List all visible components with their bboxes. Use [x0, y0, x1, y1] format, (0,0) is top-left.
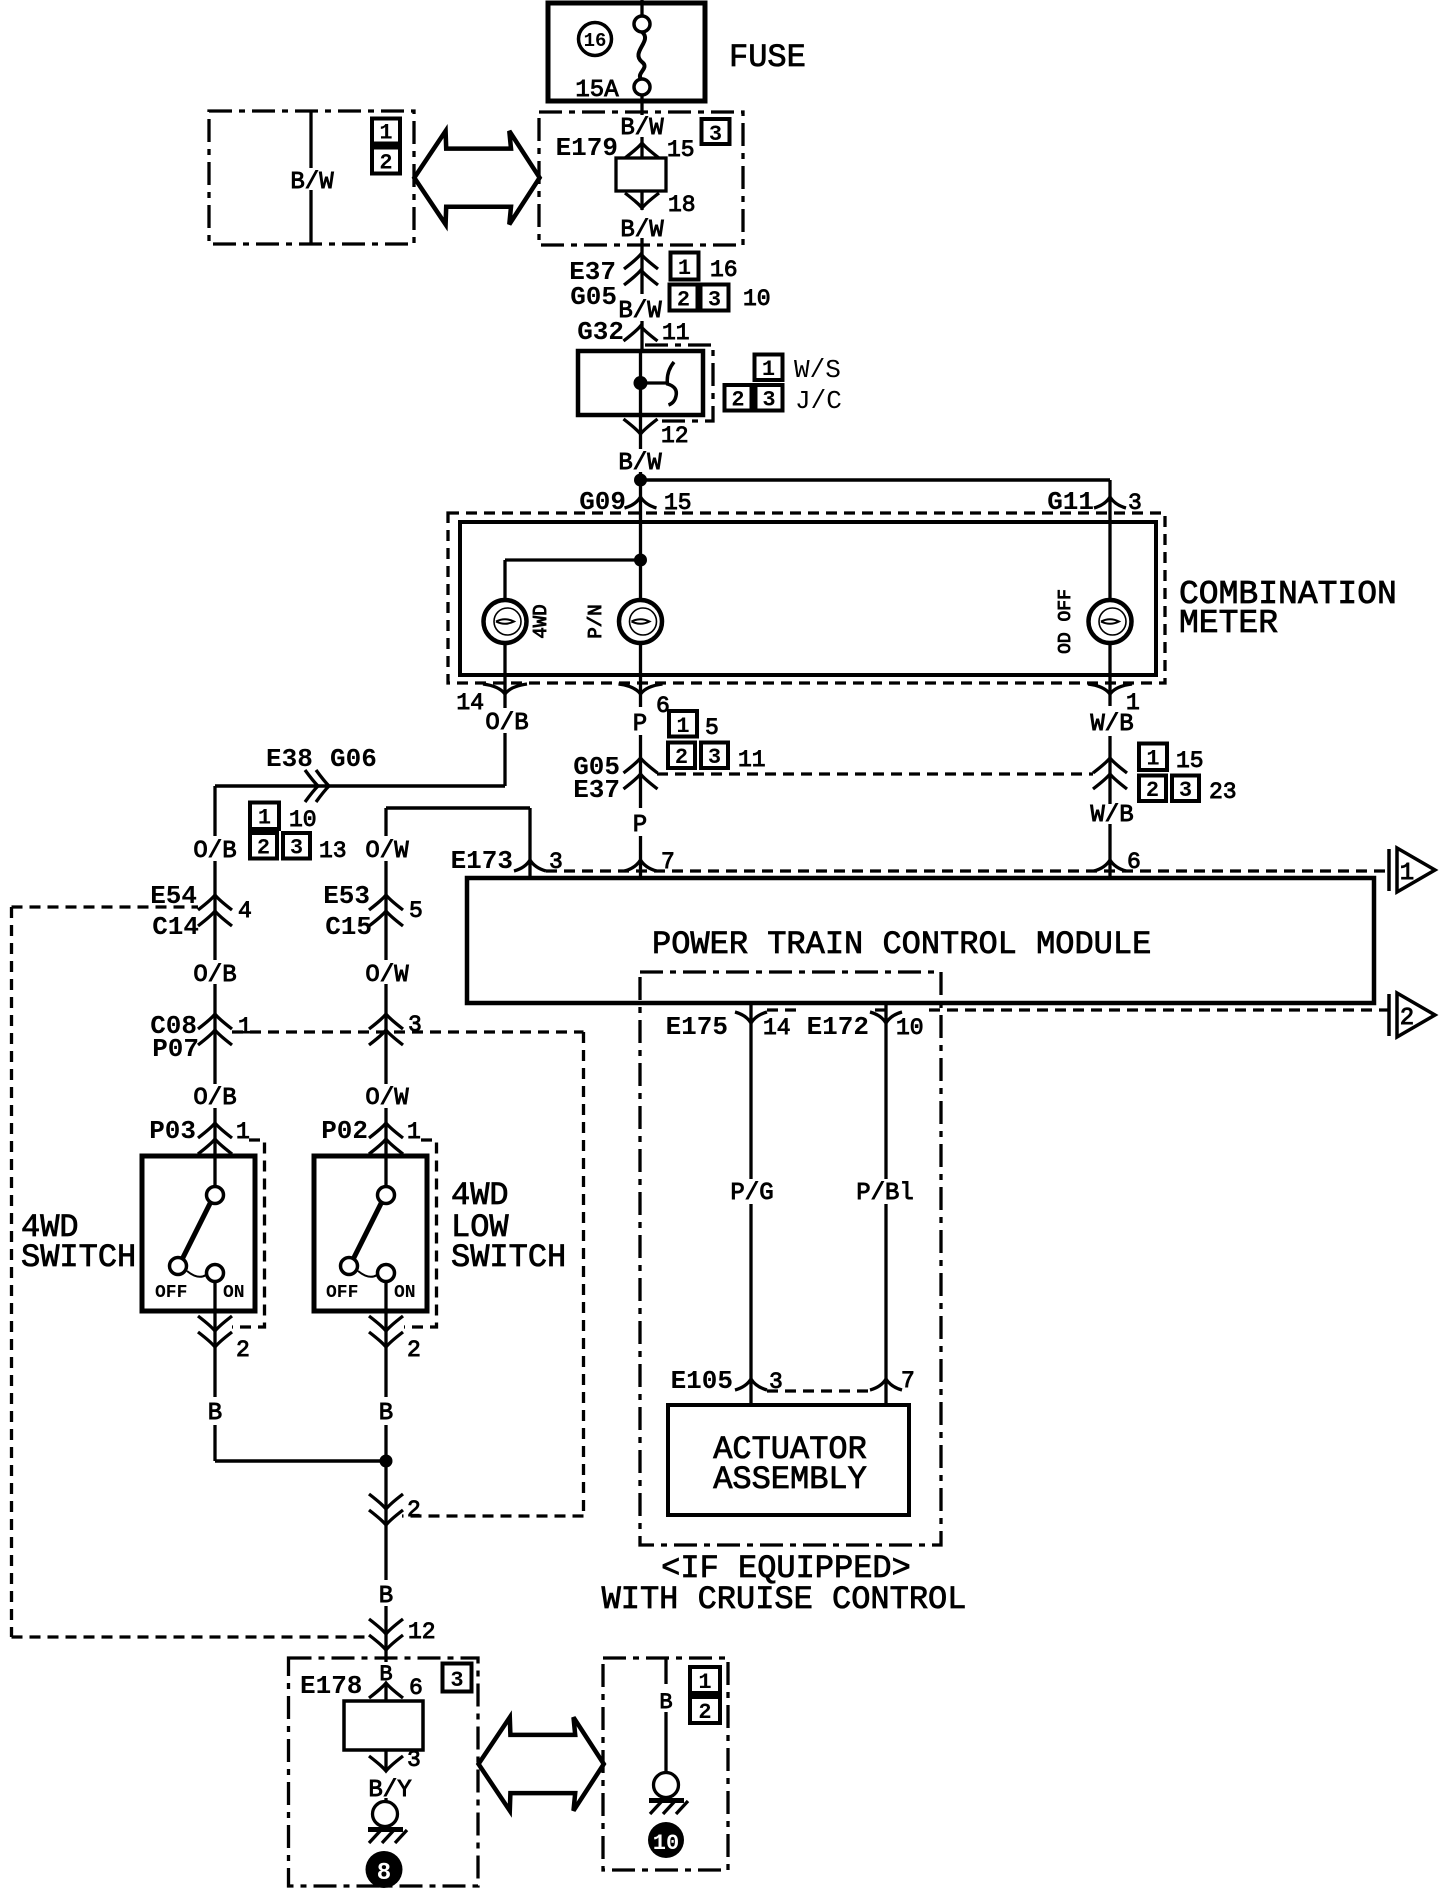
svg-text:SWITCH: SWITCH	[451, 1239, 566, 1276]
svg-text:3: 3	[708, 288, 721, 313]
svg-text:3: 3	[1179, 778, 1192, 803]
svg-text:2: 2	[236, 1337, 250, 1363]
svg-text:B: B	[208, 1400, 222, 1427]
svg-text:P03: P03	[149, 1116, 196, 1146]
svg-text:E37: E37	[573, 775, 620, 805]
svg-text:1: 1	[762, 357, 775, 382]
svg-text:12: 12	[661, 423, 689, 449]
svg-text:10: 10	[743, 286, 771, 312]
svg-text:5: 5	[409, 898, 423, 924]
svg-text:18: 18	[668, 192, 696, 218]
svg-text:6: 6	[1127, 849, 1141, 875]
svg-text:3: 3	[450, 1668, 463, 1693]
svg-text:ASSEMBLY: ASSEMBLY	[713, 1461, 867, 1498]
svg-text:23: 23	[1209, 779, 1237, 805]
svg-text:C15: C15	[325, 912, 372, 942]
svg-text:P: P	[633, 711, 647, 738]
svg-text:ON: ON	[394, 1283, 416, 1303]
svg-text:1: 1	[1400, 860, 1414, 887]
svg-text:4WD: 4WD	[530, 604, 552, 638]
svg-text:B: B	[379, 1400, 393, 1427]
svg-text:2: 2	[1146, 778, 1159, 803]
svg-text:B/Y: B/Y	[368, 1777, 411, 1804]
svg-text:2: 2	[675, 745, 688, 770]
svg-text:E53: E53	[323, 881, 370, 911]
svg-text:2: 2	[677, 288, 690, 313]
svg-text:14: 14	[763, 1015, 791, 1041]
svg-text:P02: P02	[321, 1116, 368, 1146]
svg-text:1: 1	[698, 1670, 711, 1695]
svg-text:11: 11	[662, 320, 690, 346]
svg-text:10: 10	[653, 1831, 679, 1856]
svg-text:G32: G32	[577, 317, 624, 347]
svg-text:2: 2	[698, 1700, 711, 1725]
svg-text:OFF: OFF	[155, 1283, 187, 1303]
svg-text:E175: E175	[666, 1012, 728, 1042]
svg-text:7: 7	[661, 849, 675, 875]
svg-text:3: 3	[769, 1369, 783, 1395]
svg-text:16: 16	[710, 257, 738, 283]
svg-text:B/W: B/W	[290, 169, 334, 196]
svg-text:4: 4	[238, 898, 252, 924]
svg-text:ON: ON	[223, 1283, 245, 1303]
svg-text:J/C: J/C	[795, 386, 842, 416]
svg-text:2: 2	[407, 1337, 421, 1363]
svg-text:B/W: B/W	[618, 298, 662, 325]
svg-text:3: 3	[708, 745, 721, 770]
svg-text:1: 1	[676, 714, 689, 739]
svg-text:1: 1	[236, 1119, 250, 1145]
svg-text:W/B: W/B	[1090, 802, 1133, 829]
svg-text:O/W: O/W	[365, 1085, 409, 1112]
svg-text:E172: E172	[807, 1012, 869, 1042]
svg-text:B: B	[379, 1583, 393, 1610]
svg-text:10: 10	[289, 807, 317, 833]
svg-text:B: B	[659, 1690, 672, 1715]
svg-text:OD OFF: OD OFF	[1056, 589, 1076, 654]
svg-text:1: 1	[238, 1014, 252, 1040]
svg-text:1: 1	[407, 1119, 421, 1145]
svg-text:P/N: P/N	[585, 604, 607, 638]
svg-text:3: 3	[408, 1012, 422, 1038]
svg-text:O/B: O/B	[193, 1085, 236, 1112]
svg-text:W/S: W/S	[794, 355, 841, 385]
svg-text:2: 2	[379, 151, 392, 176]
svg-text:E179: E179	[556, 133, 618, 163]
svg-text:2: 2	[257, 836, 270, 861]
svg-text:G05: G05	[570, 282, 617, 312]
svg-text:G06: G06	[330, 744, 377, 774]
svg-text:P/G: P/G	[730, 1180, 773, 1207]
svg-text:E178: E178	[300, 1671, 362, 1701]
svg-text:8: 8	[377, 1860, 391, 1887]
svg-text:E105: E105	[671, 1366, 733, 1396]
svg-text:METER: METER	[1179, 605, 1278, 642]
svg-text:10: 10	[896, 1015, 924, 1041]
svg-text:12: 12	[408, 1619, 436, 1645]
svg-text:15A: 15A	[575, 77, 619, 104]
svg-text:16: 16	[584, 30, 607, 52]
svg-text:P/Bl: P/Bl	[856, 1180, 914, 1207]
svg-text:POWER TRAIN CONTROL MODULE: POWER TRAIN CONTROL MODULE	[652, 926, 1151, 963]
svg-text:O/B: O/B	[485, 710, 528, 737]
svg-text:3: 3	[762, 388, 775, 413]
svg-text:11: 11	[738, 747, 766, 773]
svg-text:3: 3	[549, 849, 563, 875]
svg-text:C14: C14	[152, 912, 199, 942]
svg-text:W/B: W/B	[1090, 711, 1133, 738]
svg-text:13: 13	[319, 838, 347, 864]
svg-text:P: P	[633, 812, 647, 839]
svg-text:2: 2	[1400, 1005, 1414, 1032]
svg-text:WITH CRUISE CONTROL: WITH CRUISE CONTROL	[602, 1581, 967, 1618]
svg-text:O/B: O/B	[193, 838, 236, 865]
svg-text:3: 3	[709, 122, 722, 147]
svg-text:15: 15	[1176, 748, 1204, 774]
svg-text:5: 5	[705, 715, 719, 741]
svg-text:3: 3	[407, 1747, 421, 1773]
svg-text:1: 1	[1146, 747, 1159, 772]
svg-text:1: 1	[379, 121, 392, 146]
svg-text:2: 2	[407, 1497, 421, 1523]
svg-text:1: 1	[258, 806, 271, 831]
svg-text:3: 3	[290, 836, 303, 861]
svg-text:2: 2	[731, 388, 744, 413]
svg-text:E173: E173	[451, 846, 513, 876]
svg-text:SWITCH: SWITCH	[21, 1239, 136, 1276]
svg-text:14: 14	[456, 690, 484, 716]
svg-text:P07: P07	[152, 1034, 199, 1064]
svg-text:1: 1	[678, 256, 691, 281]
svg-text:7: 7	[901, 1368, 915, 1394]
svg-text:15: 15	[667, 137, 695, 163]
svg-text:FUSE: FUSE	[729, 39, 806, 76]
svg-text:OFF: OFF	[326, 1283, 358, 1303]
svg-text:6: 6	[409, 1675, 423, 1701]
svg-text:O/W: O/W	[365, 838, 409, 865]
